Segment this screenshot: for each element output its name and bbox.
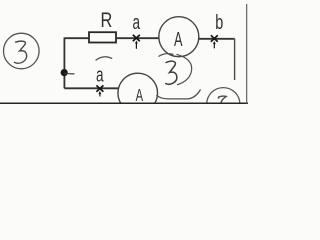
wire: stub right of junction bbox=[64, 72, 74, 75]
node a (top terminal X mark with arrow) bbox=[133, 35, 140, 49]
label a (top) bbox=[132, 10, 140, 34]
circled handwritten label 3 (beside ammeter A2) bbox=[159, 54, 192, 85]
label b bbox=[215, 11, 223, 34]
label R bbox=[101, 9, 113, 33]
node a (bottom terminal X mark with arrow) bbox=[96, 85, 103, 96]
wire: right vertical drop from corner b bbox=[234, 39, 236, 80]
svg-text:b: b bbox=[215, 11, 223, 34]
page scan edge: right bbox=[246, 4, 248, 104]
wire: top-left horizontal from corner to resistor bbox=[65, 37, 90, 39]
node b (terminal X mark with arrow) bbox=[211, 35, 218, 48]
svg-text:A: A bbox=[136, 85, 143, 104]
wire: resistor to ammeter A1 bbox=[116, 37, 159, 39]
svg-text:R: R bbox=[101, 9, 113, 33]
svg-text:a: a bbox=[96, 63, 104, 87]
label a (bottom) bbox=[96, 63, 104, 87]
resistor R bbox=[89, 32, 116, 42]
wire: bottom horizontal to ammeter A2 bbox=[64, 87, 118, 89]
page scan edge: bottom bbox=[0, 102, 248, 104]
wire: ammeter A1 to right corner bbox=[199, 38, 235, 40]
svg-text:a: a bbox=[132, 10, 140, 34]
arc mark above bottom label a bbox=[96, 57, 113, 61]
ammeter A1 bbox=[159, 17, 199, 57]
wire: left vertical from top corner down bbox=[63, 38, 65, 89]
wire: ammeter A2 right lead curving toward bottom-right bbox=[156, 90, 200, 99]
svg-text:A: A bbox=[174, 28, 183, 51]
junction dot bbox=[61, 69, 68, 76]
circled figure number 3 (left) bbox=[4, 33, 40, 69]
ammeter A2 bbox=[118, 73, 158, 113]
partial circle of adjacent figure (bottom right) with glyph 7 bbox=[207, 88, 240, 121]
